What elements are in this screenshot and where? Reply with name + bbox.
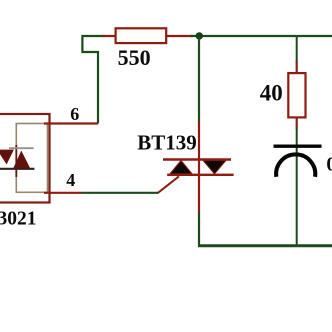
wire top rail [190,35,332,37]
pin 4 lead [44,192,82,194]
svg-text:0.04: 0.04 [326,153,332,175]
optocoupler triac bottom bar [0,168,34,170]
svg-text:40: 40 [260,80,283,105]
capacitor C1 curved plate [276,154,315,176]
wire R2 to capacitor and bottom rail [296,129,298,246]
resistor R2 40 bottom lead [296,117,298,129]
svg-text:4: 4 [66,170,75,190]
resistor R2 40 top lead [296,61,298,74]
triac BT139 bottom bar MT1 [167,174,233,176]
svg-text:MOC3021: MOC3021 [0,208,36,229]
pin 6 lead [44,122,98,124]
triac BT139 gate lead [158,176,179,193]
triac BT139 right triangle [203,160,226,174]
wire top rail branch to R2 [296,36,298,62]
triac BT139 left triangle [170,160,192,174]
svg-text:6: 6 [70,104,79,124]
triac BT139 top bar MT2 [163,158,231,160]
optocoupler triac top bar [9,147,34,149]
svg-text:550: 550 [118,45,151,70]
wire from junction down to triac [198,36,200,121]
optocoupler left triangle [0,150,14,165]
optocoupler U1 outer box [0,114,50,203]
resistor R2 40 body [288,73,305,117]
wire net from pin 6 up to resistor 550 [82,36,105,124]
resistor R1 550 left lead [103,35,116,37]
wire triac MT1 to bottom rail [198,212,200,246]
capacitor C1 top plate [274,144,322,147]
svg-text:BT139: BT139 [137,131,197,155]
wire pin 4 to triac gate [82,192,159,194]
triac BT139 vertical lead through symbol [198,121,200,212]
junction node at top rail [196,32,203,39]
wire bottom rail [198,244,332,247]
optocoupler U1 inner detector box [16,124,47,193]
optocoupler internal vertical lead [15,145,17,177]
resistor R1 550 body [116,28,167,43]
resistor R1 550 right lead [166,35,192,37]
optocoupler right triangle [13,151,30,169]
